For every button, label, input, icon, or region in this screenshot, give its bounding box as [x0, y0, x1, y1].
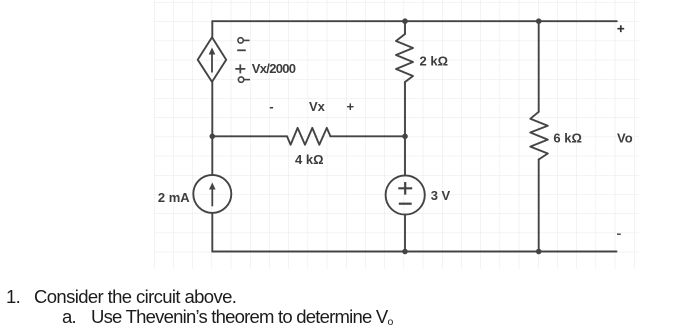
- wire top rail: [212, 20, 617, 22]
- plus terminal mark top right: [617, 25, 624, 32]
- plus sign inside V1: [398, 182, 412, 195]
- minus sign inside V1: [399, 203, 412, 205]
- svg-text:Vx: Vx: [309, 99, 326, 114]
- wire left rail lower: [211, 213, 213, 252]
- wire middle rail mid: [404, 82, 406, 175]
- problem text line 2: [62, 306, 393, 328]
- control terminal bottom circle: [238, 77, 250, 82]
- node dot bottom middle: [402, 249, 408, 255]
- svg-text:4 kΩ: 4 kΩ: [295, 152, 324, 167]
- svg-text:Vo: Vo: [617, 131, 633, 146]
- svg-text:Vx/2000: Vx/2000: [252, 61, 296, 76]
- arrow of dependent source U1: [209, 48, 216, 73]
- control plus sign: [235, 64, 245, 73]
- problem text line 1: [6, 286, 236, 308]
- wire mid rail left: [212, 135, 287, 137]
- control minus sign: [237, 49, 246, 51]
- wire right rail bottom: [538, 160, 540, 252]
- svg-text:3 V: 3 V: [431, 188, 451, 203]
- wire left rail mid: [211, 82, 213, 175]
- dependent source U1 diamond: [198, 37, 227, 82]
- wire bottom rail: [212, 251, 616, 253]
- svg-text:6 kΩ: 6 kΩ: [553, 131, 582, 146]
- wire middle rail bottom: [404, 215, 406, 252]
- svg-text:2 mA: 2 mA: [158, 190, 190, 205]
- current source I1 2mA circle: [193, 175, 231, 213]
- node dot mid left: [210, 134, 216, 140]
- resistor R3 6k zigzag: [530, 112, 548, 160]
- node dot top middle: [402, 18, 408, 24]
- minus terminal mark bottom right: [617, 233, 621, 235]
- arrow of current source I1: [209, 183, 216, 207]
- node dot top right: [536, 18, 542, 24]
- wire mid rail right: [330, 135, 405, 137]
- wire left rail upper: [211, 21, 213, 37]
- svg-text:2 kΩ: 2 kΩ: [420, 54, 449, 69]
- voltage source V1 3V circle: [386, 175, 425, 214]
- svg-text:+: +: [347, 99, 355, 114]
- wire right rail top: [538, 21, 540, 112]
- node dot mid right: [402, 134, 408, 140]
- resistor R2 4k zigzag: [287, 128, 330, 145]
- node dot bottom right: [536, 249, 542, 255]
- control terminal top circle: [238, 38, 250, 43]
- resistor R1 2k zigzag: [396, 34, 413, 82]
- svg-text:-: -: [269, 99, 273, 114]
- wire middle rail top: [404, 22, 406, 35]
